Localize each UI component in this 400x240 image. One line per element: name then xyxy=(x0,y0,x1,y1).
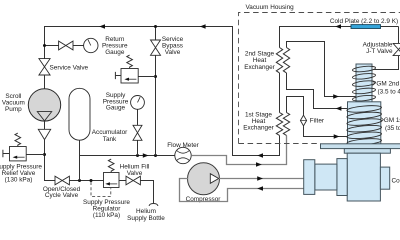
node: junction at gauge branch xyxy=(43,44,46,47)
flow arrow on return header left segment xyxy=(99,24,105,28)
wire: check valve down to bottom supply run xyxy=(45,140,56,181)
svg-text:Pump: Pump xyxy=(5,106,22,113)
wire: open/closed valve to regulator xyxy=(69,180,103,182)
wire: filter to 1st stage coil inlet xyxy=(304,126,349,136)
valve: Helium Fill Valve xyxy=(126,176,140,185)
flow arrow from 1st stage coil xyxy=(336,106,342,110)
node: bypass line junction xyxy=(154,154,157,157)
wire: cold plate line to 2nd stage left zigzag xyxy=(280,27,399,48)
wire: 1st stage coil outlet to 2nd stage HX xyxy=(287,73,349,109)
valve: Service Bypass Valve xyxy=(151,40,161,55)
relief valve: Supply Pressure Relief Valve box xyxy=(10,147,27,161)
filter internal line xyxy=(300,120,306,122)
wire: flow meter to 1st stage HX supply riser xyxy=(191,136,286,165)
wire: supply branch from tank stem to flow meter xyxy=(80,155,175,157)
wire: compressor discharge to cold head xyxy=(219,178,304,180)
flow meter internal curves xyxy=(177,151,190,161)
vent of relief valve xyxy=(3,150,10,157)
regulator: Supply Pressure Regulator box xyxy=(104,173,120,188)
gauge: Return Pressure Gauge xyxy=(84,38,98,52)
cold head: left flange block xyxy=(337,159,347,196)
spring of supply pressure regulator xyxy=(108,159,114,172)
wire: between 2nd and 1st stage left zigzags xyxy=(279,73,281,113)
flow arrow on return header right segment xyxy=(200,24,206,28)
valve: return gauge isolation valve xyxy=(59,41,73,50)
svg-text:Cycle Valve: Cycle Valve xyxy=(45,192,79,199)
svg-text:Exchanger: Exchanger xyxy=(243,125,274,132)
vent of back pressure regulator xyxy=(115,72,121,79)
pump outlet triangle xyxy=(37,112,51,121)
wire: 2nd stage coil outlet to J-T valve xyxy=(373,56,399,70)
internal arrow of supply pressure regulator xyxy=(107,183,117,185)
wire: J-T valve up to cold plate line xyxy=(398,27,400,44)
pointer to GM 1st stage label xyxy=(381,118,383,122)
node: junction with back pressure regulator xyxy=(154,75,157,78)
valve: Adjustable J-T Valve xyxy=(393,43,400,55)
needle of return pressure gauge xyxy=(88,40,91,46)
heat exchanger: 2nd stage right zigzag xyxy=(283,48,289,73)
svg-text:Cold Head: Cold Head xyxy=(392,178,400,185)
svg-text:Supply Bottle: Supply Bottle xyxy=(127,215,165,222)
cold plate bar xyxy=(351,25,381,29)
wire: return line from 1st stage HX bottom via top header down to service valve xyxy=(45,27,280,156)
svg-text:(35 to 40 K): (35 to 40 K) xyxy=(385,125,400,132)
GM cryocooler 2nd stage cylinder xyxy=(356,64,372,102)
svg-text:Helium: Helium xyxy=(136,208,156,215)
svg-text:Flow Meter: Flow Meter xyxy=(167,142,199,149)
vacuum housing dashed boundary xyxy=(239,13,400,144)
svg-text:Vacuum Housing: Vacuum Housing xyxy=(246,4,295,11)
heat exchanger: 2nd stage left zigzag xyxy=(276,48,282,73)
wire: service bypass line upper xyxy=(155,27,157,41)
wire: regulator to helium fill valve xyxy=(119,180,126,182)
flow meter: circle xyxy=(175,147,191,163)
flow arrow on cold plate line xyxy=(335,24,341,28)
svg-text:GM 2nd Stage: GM 2nd Stage xyxy=(376,81,400,88)
pump: Scroll Vacuum Pump xyxy=(28,89,60,121)
svg-text:Valve: Valve xyxy=(127,170,143,177)
cold head: second flange plate xyxy=(344,149,390,154)
svg-text:(3.5 to 4.2 K): (3.5 to 4.2 K) xyxy=(378,88,400,95)
valve: Service Valve xyxy=(39,59,50,75)
GM cryocooler 1st stage cylinder xyxy=(348,102,381,145)
wire: relief valve to pump line xyxy=(26,154,44,156)
spring of back pressure regulator xyxy=(127,55,133,68)
svg-text:Valve: Valve xyxy=(165,49,181,56)
flow arrow to 2nd stage coil xyxy=(333,94,339,98)
wire: cold head return to compressor suction xyxy=(180,179,304,202)
wire: 1st stage HX to filter xyxy=(287,97,304,115)
heat exchanger: 1st stage left zigzag xyxy=(276,113,282,136)
flow arrow on discharge xyxy=(257,176,263,180)
flow arrow on supply run xyxy=(256,162,262,166)
compressor discharge triangle xyxy=(210,174,218,184)
helium supply bottle symbol xyxy=(149,203,158,206)
svg-text:GM 1st Stage: GM 1st Stage xyxy=(384,117,400,124)
wire: pump to check valve xyxy=(44,121,46,129)
svg-text:J-T Valve: J-T Valve xyxy=(366,48,393,55)
dashed sense line of regulator xyxy=(91,182,111,197)
wire: regulator to bypass line xyxy=(138,76,155,78)
svg-text:Cold Plate (2.2 to 2.9 K): Cold Plate (2.2 to 2.9 K) xyxy=(330,18,398,25)
gauge: Supply Pressure Gauge xyxy=(131,96,145,110)
regulator: back pressure regulator box xyxy=(121,69,138,84)
valve: Open/Closed Cycle Valve xyxy=(55,176,69,185)
coil on 2nd stage xyxy=(352,65,376,102)
node: junction on top header xyxy=(154,25,157,28)
node: junction with relief valve xyxy=(43,153,46,156)
spring of relief valve xyxy=(15,133,21,146)
wire: gauge valve to return pressure gauge xyxy=(73,45,84,47)
cold head: middle block xyxy=(315,164,337,190)
svg-text:Gauge: Gauge xyxy=(105,49,125,56)
svg-text:Tank: Tank xyxy=(103,136,117,143)
cold head: right connector tab xyxy=(380,167,389,189)
coil on 1st stage xyxy=(347,104,382,146)
svg-text:(110 kPa): (110 kPa) xyxy=(93,212,120,219)
wire: gauge branch stub xyxy=(45,45,59,47)
flow arrow on suction xyxy=(257,186,263,190)
internal arrow of back pressure regulator xyxy=(127,78,137,80)
tank: Accumulator Tank xyxy=(69,88,90,140)
node: regulator sense junction xyxy=(90,179,93,182)
cold head: wide vacuum flange plate xyxy=(321,144,400,149)
cold head: main body xyxy=(347,153,380,201)
svg-text:Service Valve: Service Valve xyxy=(50,64,89,71)
wire: tank stem xyxy=(79,140,81,180)
flow arrow on supply branch xyxy=(143,153,149,157)
needle of supply pressure gauge xyxy=(138,97,141,102)
heat exchanger: 1st stage right zigzag xyxy=(283,113,289,136)
check valve below pump xyxy=(38,129,50,139)
svg-text:Gauge: Gauge xyxy=(106,105,126,112)
valve: supply gauge isolation valve xyxy=(133,125,142,140)
wire: supply gauge stem upper xyxy=(137,109,139,125)
svg-text:Filter: Filter xyxy=(310,118,325,125)
wire: service valve to pump inlet xyxy=(44,75,46,89)
filter diamond xyxy=(300,115,306,126)
internal arrow of relief valve xyxy=(15,156,25,158)
node: gauge stem junction xyxy=(136,154,139,157)
svg-text:Accumulator: Accumulator xyxy=(92,129,128,136)
flow arrow to 1st stage coil xyxy=(334,134,340,138)
wire: supply gauge stem lower xyxy=(137,140,139,155)
flow arrow on return run under housing xyxy=(257,153,263,157)
compressor: circle xyxy=(188,163,220,195)
wire: 2nd stage HX to 2nd stage coil inlet xyxy=(287,42,358,97)
wire: service bypass line lower xyxy=(155,55,157,155)
node: tank stem junction xyxy=(78,179,81,182)
svg-text:Exchanger: Exchanger xyxy=(244,64,275,71)
pointer to GM 2nd stage label xyxy=(373,81,375,85)
wire: fill valve to helium bottle xyxy=(140,181,153,204)
cold head: left end block xyxy=(304,160,315,195)
svg-text:(130 kPa): (130 kPa) xyxy=(5,176,33,183)
